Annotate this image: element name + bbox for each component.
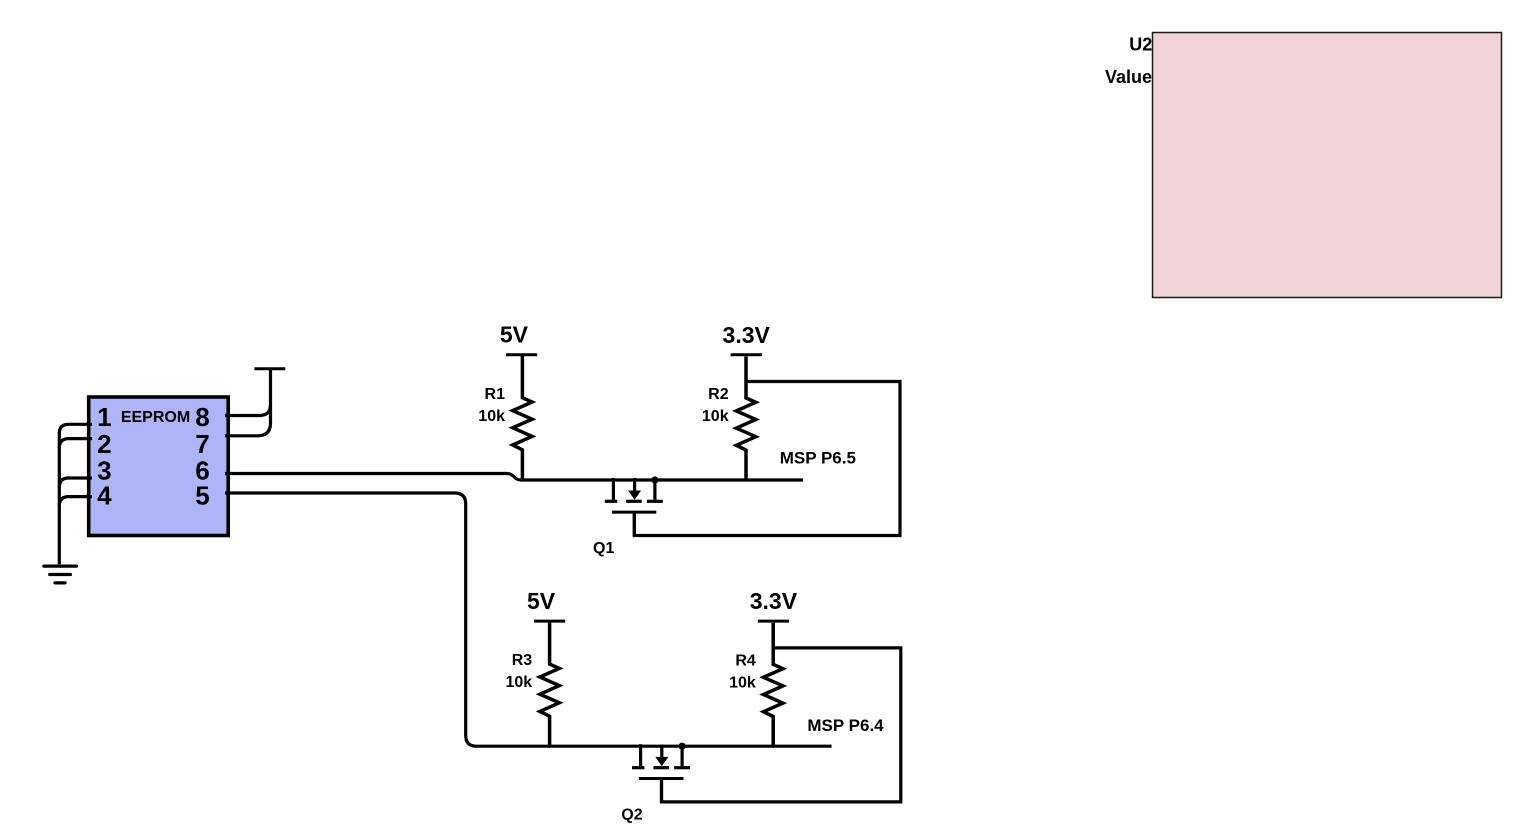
svg-text:3.3V: 3.3V [750, 588, 798, 614]
svg-text:MSP P6.4: MSP P6.4 [807, 716, 884, 735]
svg-text:3.3V: 3.3V [723, 322, 771, 348]
svg-text:10k: 10k [478, 408, 505, 425]
svg-text:Q2: Q2 [621, 806, 642, 823]
svg-text:4: 4 [97, 481, 112, 511]
svg-text:U2: U2 [1129, 35, 1152, 55]
svg-text:5V: 5V [527, 588, 556, 614]
svg-text:R1: R1 [485, 386, 506, 403]
svg-text:10k: 10k [702, 408, 729, 425]
svg-text:2: 2 [97, 429, 111, 459]
svg-text:Value: Value [1105, 67, 1152, 87]
svg-text:10k: 10k [729, 675, 756, 692]
svg-text:10k: 10k [505, 674, 532, 691]
svg-text:R4: R4 [735, 653, 756, 670]
svg-text:1: 1 [97, 402, 111, 432]
svg-text:5V: 5V [500, 322, 529, 348]
svg-text:5: 5 [195, 481, 209, 511]
svg-text:8: 8 [195, 402, 209, 432]
svg-text:MSP P6.5: MSP P6.5 [780, 449, 856, 468]
svg-text:R2: R2 [708, 386, 729, 403]
svg-text:EEPROM: EEPROM [121, 409, 190, 426]
svg-text:7: 7 [195, 429, 209, 459]
svg-text:Q1: Q1 [593, 540, 614, 557]
svg-text:R3: R3 [512, 652, 533, 669]
